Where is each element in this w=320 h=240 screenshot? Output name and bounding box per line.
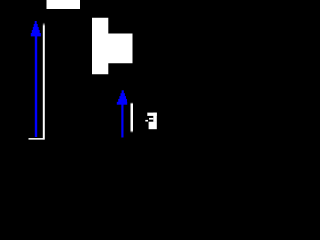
numeral 3 middle arm: [149, 118, 153, 120]
numeral 3 right bar: [153, 113, 157, 122]
top white bar: [47, 0, 81, 9]
white flag shape: [92, 18, 133, 74]
right blue arrow shaft: [121, 102, 123, 138]
numeral 3 left dash: [145, 120, 148, 122]
left white vertical line: [43, 23, 45, 140]
numeral 3 bottom block: [149, 122, 157, 130]
left blue arrow shaft: [35, 34, 37, 137]
numeral 3 top arm: [147, 113, 157, 116]
right blue arrow head: [117, 90, 127, 104]
right white vertical line: [131, 102, 134, 133]
bottom white horizontal line: [29, 138, 45, 140]
left blue arrow head: [31, 21, 41, 36]
